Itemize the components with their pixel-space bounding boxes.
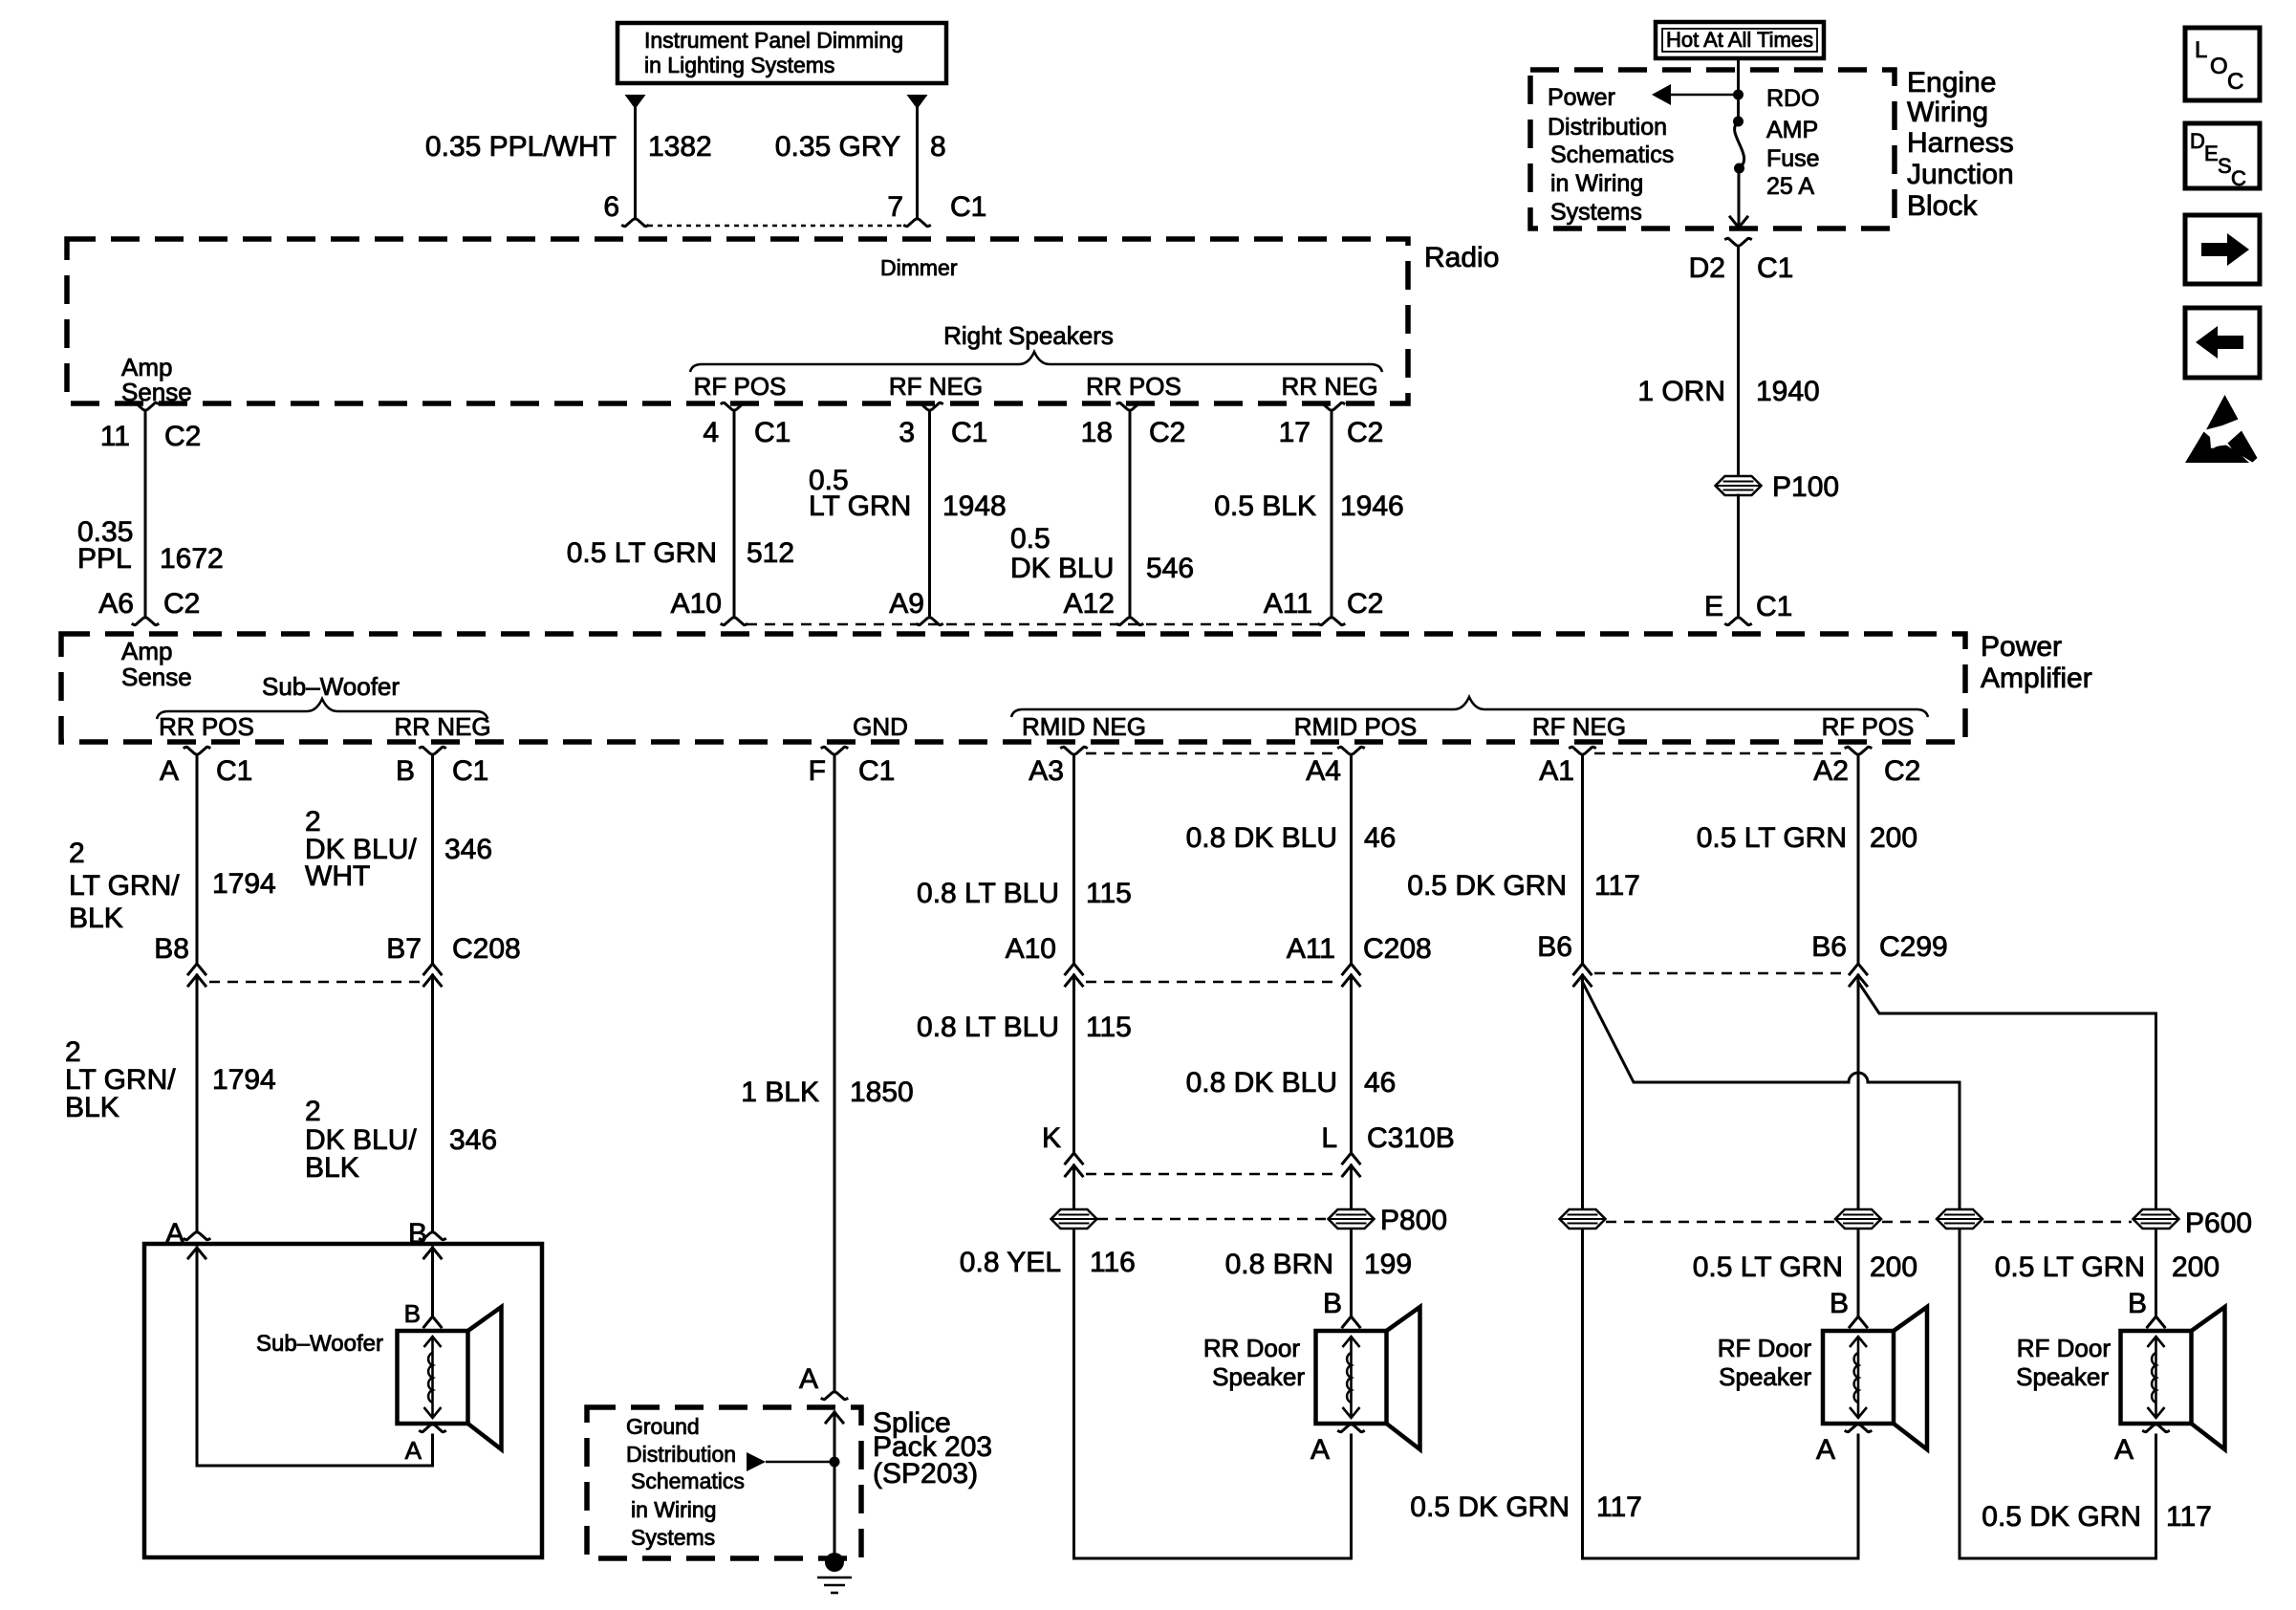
wire 2 DK BLU/BLK 346 <box>431 975 434 1231</box>
svg-text:Harness: Harness <box>1907 127 2014 159</box>
svg-text:C299: C299 <box>1879 931 1948 963</box>
svg-text:Hot At All Times: Hot At All Times <box>1666 28 1813 52</box>
svg-text:O: O <box>2210 54 2228 79</box>
svg-text:2: 2 <box>69 838 85 869</box>
svg-text:1946: 1946 <box>1340 490 1404 522</box>
svg-text:B6: B6 <box>1811 931 1847 963</box>
Radio component dashed box <box>67 239 1408 403</box>
wire 0.5 LT GRN 512 (RF POS) <box>722 402 747 410</box>
svg-text:2: 2 <box>305 1096 321 1127</box>
svg-text:Speaker: Speaker <box>1719 1362 1811 1391</box>
svg-text:BLK: BLK <box>65 1092 119 1123</box>
svg-text:Distribution: Distribution <box>1548 114 1667 141</box>
svg-text:0.8 YEL: 0.8 YEL <box>960 1247 1061 1278</box>
svg-text:RMID POS: RMID POS <box>1294 712 1418 741</box>
connector A at sub-woofer <box>184 1232 209 1240</box>
svg-text:B: B <box>1323 1288 1342 1319</box>
svg-text:C1: C1 <box>1756 591 1792 622</box>
svg-text:(SP203): (SP203) <box>873 1458 978 1490</box>
connector C2/C1 link dashed under radio pins <box>747 623 1319 626</box>
svg-text:Power: Power <box>1548 84 1615 111</box>
svg-text:C1: C1 <box>754 417 791 448</box>
svg-text:Amp: Amp <box>121 637 172 665</box>
svg-text:Block: Block <box>1907 190 1978 222</box>
wire 0.5 BLK 1946 (RR NEG) <box>1319 402 1344 410</box>
svg-text:3: 3 <box>899 417 915 448</box>
svg-text:LT GRN/: LT GRN/ <box>69 870 180 902</box>
connector C1 link dashed <box>648 225 904 227</box>
in-line connector A10 C208 <box>1066 964 1083 974</box>
sub-woofer speaker <box>398 1331 468 1424</box>
RR speaker B terminal <box>1343 1316 1360 1327</box>
svg-text:Speaker: Speaker <box>1212 1362 1305 1391</box>
svg-text:A12: A12 <box>1064 588 1115 620</box>
svg-text:Power: Power <box>1981 631 2062 663</box>
svg-text:117: 117 <box>1596 1491 1642 1523</box>
svg-text:E: E <box>2204 141 2219 165</box>
wire 2 LT GRN/BLK 1794 lower <box>196 975 199 1231</box>
svg-text:Sub–Woofer: Sub–Woofer <box>256 1331 383 1357</box>
svg-text:117: 117 <box>2166 1501 2212 1533</box>
svg-text:18: 18 <box>1081 417 1113 448</box>
svg-text:P800: P800 <box>1380 1205 1447 1236</box>
svg-text:346: 346 <box>444 834 492 865</box>
connector A at splice pack <box>822 1392 847 1400</box>
svg-text:8: 8 <box>930 131 946 163</box>
svg-text:B: B <box>396 755 415 787</box>
svg-text:0.5 LT GRN: 0.5 LT GRN <box>1697 822 1847 854</box>
svg-text:Junction: Junction <box>1907 159 2014 190</box>
svg-text:0.35 GRY: 0.35 GRY <box>775 131 900 163</box>
connector A4 (RMID POS) <box>1339 747 1364 754</box>
svg-text:RR Door: RR Door <box>1203 1334 1300 1362</box>
svg-text:0.8 LT BLU: 0.8 LT BLU <box>917 878 1059 909</box>
svg-text:RF Door: RF Door <box>2017 1334 2112 1362</box>
wire 1 ORN 1940 <box>1737 247 1740 476</box>
svg-text:GND: GND <box>853 712 908 741</box>
svg-text:A: A <box>160 755 179 787</box>
svg-text:C1: C1 <box>950 191 986 223</box>
ground symbol G203 <box>825 1553 844 1572</box>
back arrow icon <box>2185 308 2260 378</box>
svg-text:Distribution: Distribution <box>626 1442 736 1467</box>
svg-text:Ground: Ground <box>626 1414 700 1439</box>
wire 0.8 DK BLU 46 upper <box>1350 755 1353 964</box>
wire 2 DK BLU/WHT 346 <box>431 755 434 964</box>
svg-text:Right Speakers: Right Speakers <box>943 321 1114 350</box>
svg-text:A9: A9 <box>889 588 924 620</box>
svg-text:C2: C2 <box>1884 755 1920 787</box>
svg-text:4: 4 <box>703 417 719 448</box>
svg-text:Amplifier: Amplifier <box>1981 663 2092 694</box>
svg-text:Sense: Sense <box>121 663 192 691</box>
return run to RR speaker A <box>1074 1557 1352 1560</box>
svg-text:AMP: AMP <box>1766 117 1818 143</box>
connector A2 C2 (RF POS) <box>1846 747 1871 754</box>
svg-text:WHT: WHT <box>305 860 370 892</box>
svg-text:C2: C2 <box>164 421 201 452</box>
svg-text:E: E <box>1704 591 1723 622</box>
svg-text:C1: C1 <box>216 755 252 787</box>
wire to speaker B terminal <box>431 1248 434 1316</box>
svg-text:Sub–Woofer: Sub–Woofer <box>262 672 400 701</box>
wire P100 to amplifier E <box>1737 495 1740 617</box>
svg-text:C1: C1 <box>858 755 895 787</box>
Power Amplifier dashed box <box>61 634 1965 742</box>
svg-text:1794: 1794 <box>212 1064 276 1096</box>
svg-text:A11: A11 <box>1287 933 1335 965</box>
svg-text:B6: B6 <box>1537 931 1572 963</box>
svg-text:0.5 BLK: 0.5 BLK <box>1214 490 1316 522</box>
svg-text:C1: C1 <box>951 417 987 448</box>
wire 0.8 DK BLU 46 lower <box>1350 975 1353 1153</box>
svg-text:1672: 1672 <box>160 543 224 575</box>
svg-text:C1: C1 <box>1757 252 1793 284</box>
svg-text:0.5 LT GRN: 0.5 LT GRN <box>1693 1251 1843 1283</box>
svg-text:0.5: 0.5 <box>1010 523 1051 555</box>
svg-text:Wiring: Wiring <box>1907 97 1988 128</box>
svg-text:200: 200 <box>1870 1251 1917 1283</box>
svg-text:RDO: RDO <box>1766 85 1820 112</box>
svg-text:6: 6 <box>603 191 619 223</box>
svg-text:0.5 DK GRN: 0.5 DK GRN <box>1410 1491 1570 1523</box>
svg-text:A3: A3 <box>1029 755 1064 787</box>
branch down through P600 to middle RF speaker B <box>1857 975 1860 1316</box>
wire 1 BLK 1850 <box>834 755 836 1391</box>
branch diagonal to right RF speaker B <box>1858 982 2156 1013</box>
ESD sensitive device symbol <box>2206 395 2239 430</box>
wire from Hot At All Times into block <box>1737 58 1740 91</box>
in-line connector B6 C299 <box>1850 964 1867 974</box>
svg-text:B8: B8 <box>154 933 189 965</box>
svg-text:S: S <box>2218 154 2232 178</box>
wire from fuse to block edge with arrow <box>1738 168 1741 226</box>
svg-text:25 A: 25 A <box>1766 173 1814 200</box>
wire 0.5 DK BLU 546 (RR POS) <box>1117 402 1142 410</box>
svg-text:Dimmer: Dimmer <box>880 255 958 280</box>
svg-text:1382: 1382 <box>648 131 712 163</box>
svg-text:RF NEG: RF NEG <box>889 372 983 401</box>
connector B at sub-woofer <box>421 1232 445 1240</box>
pass-through connector P100 <box>1716 476 1762 495</box>
svg-text:LT GRN: LT GRN <box>809 490 911 522</box>
svg-text:D: D <box>2190 129 2205 153</box>
svg-text:B: B <box>2128 1288 2147 1319</box>
wire to pass-through P800 <box>1072 1165 1075 1558</box>
svg-text:A6: A6 <box>98 588 134 620</box>
svg-text:C1: C1 <box>452 755 488 787</box>
svg-text:DK BLU: DK BLU <box>1010 553 1114 584</box>
P600 pass-through dashed link <box>1606 1221 1834 1224</box>
svg-text:A: A <box>1310 1434 1330 1466</box>
wire 0.5 LT GRN 200 <box>1857 755 1860 964</box>
svg-text:512: 512 <box>747 537 794 569</box>
svg-text:0.5 DK GRN: 0.5 DK GRN <box>1982 1501 2141 1533</box>
connector D2 C1 <box>1726 238 1751 246</box>
Instrument Panel Dimming reference box <box>617 23 946 83</box>
svg-text:B7: B7 <box>386 933 422 965</box>
off-page arrow to dimmer wire 8 <box>907 95 928 109</box>
svg-text:PPL: PPL <box>77 543 132 575</box>
svg-text:0.5 LT GRN: 0.5 LT GRN <box>1995 1251 2145 1283</box>
svg-text:115: 115 <box>1086 878 1132 909</box>
svg-text:Systems: Systems <box>1550 199 1642 226</box>
svg-text:546: 546 <box>1146 553 1194 584</box>
off-page arrow to dimmer wire 1382 <box>625 95 646 109</box>
svg-text:199: 199 <box>1364 1249 1412 1280</box>
svg-text:RR POS: RR POS <box>159 712 254 741</box>
svg-text:1940: 1940 <box>1756 376 1820 407</box>
svg-text:D2: D2 <box>1689 252 1725 284</box>
svg-text:RF POS: RF POS <box>694 372 787 401</box>
svg-text:A: A <box>1816 1434 1835 1466</box>
svg-text:C2: C2 <box>163 588 200 620</box>
svg-text:B: B <box>404 1299 421 1328</box>
svg-text:1948: 1948 <box>942 490 1007 522</box>
in-line connector L C310B <box>1343 1153 1360 1164</box>
svg-text:P100: P100 <box>1772 471 1839 503</box>
wire 0.5 DK GRN 117 <box>1581 755 1584 964</box>
svg-text:Speaker: Speaker <box>2016 1362 2109 1391</box>
svg-text:200: 200 <box>1870 822 1917 854</box>
svg-text:46: 46 <box>1364 1067 1396 1099</box>
svg-text:1 BLK: 1 BLK <box>741 1077 819 1108</box>
svg-text:in Lighting Systems: in Lighting Systems <box>644 53 834 77</box>
DESC icon <box>2185 123 2260 188</box>
svg-text:A10: A10 <box>671 588 722 620</box>
svg-text:Schematics: Schematics <box>1550 141 1674 168</box>
svg-text:Systems: Systems <box>631 1525 715 1550</box>
svg-text:Fuse: Fuse <box>1766 145 1820 172</box>
svg-text:RF POS: RF POS <box>1822 712 1915 741</box>
connector A3 (RMID NEG) <box>1062 747 1087 754</box>
ground distribution branch arrow <box>747 1452 766 1471</box>
svg-text:0.35 PPL/WHT: 0.35 PPL/WHT <box>425 131 617 163</box>
in-line connector B7 C208 <box>424 964 442 974</box>
svg-text:Instrument Panel Dimming: Instrument Panel Dimming <box>644 28 903 53</box>
Engine Wiring Harness Junction Block dashed box <box>1530 70 1895 228</box>
svg-text:C: C <box>2231 166 2246 190</box>
svg-text:A10: A10 <box>1006 933 1056 965</box>
forward arrow icon <box>2185 215 2260 284</box>
svg-text:1850: 1850 <box>850 1077 914 1108</box>
svg-text:Engine: Engine <box>1907 67 1996 98</box>
wire 0.8 LT BLU 115 lower <box>1072 975 1075 1153</box>
svg-text:A: A <box>405 1436 422 1465</box>
svg-text:A1: A1 <box>1539 755 1574 787</box>
wire into sub-woofer to speaker A <box>196 1248 199 1466</box>
Sub-Woofer enclosure box <box>144 1244 542 1557</box>
svg-text:346: 346 <box>449 1124 497 1156</box>
wire to pass-through P800 <box>1350 1165 1353 1316</box>
svg-text:K: K <box>1042 1122 1061 1154</box>
svg-text:0.8 BRN: 0.8 BRN <box>1225 1249 1333 1280</box>
svg-text:Schematics: Schematics <box>631 1469 745 1493</box>
in-line connector A11 C208 <box>1343 964 1360 974</box>
wire 0.35 PPL/WHT 1382 <box>634 107 637 218</box>
svg-text:A: A <box>799 1363 818 1395</box>
P800 pass-through dashed link <box>1097 1218 1329 1221</box>
svg-text:0.8 DK BLU: 0.8 DK BLU <box>1186 822 1337 854</box>
amplifier output brace <box>1011 697 1928 717</box>
pass-through connector P800 <box>1329 1209 1375 1229</box>
svg-text:0.5 LT GRN: 0.5 LT GRN <box>567 537 717 569</box>
svg-text:C310B: C310B <box>1367 1122 1455 1154</box>
Hot At All Times box <box>1656 22 1824 58</box>
branch arrow to power distribution <box>1652 84 1671 105</box>
svg-text:A: A <box>2114 1434 2134 1466</box>
fuse RDO AMP 25 A <box>1737 95 1740 121</box>
Splice Pack 203 dashed box <box>587 1407 861 1558</box>
svg-text:RF NEG: RF NEG <box>1532 712 1626 741</box>
wire 0.8 LT BLU 115 upper <box>1072 755 1075 964</box>
svg-text:A2: A2 <box>1813 755 1849 787</box>
svg-text:46: 46 <box>1364 822 1396 854</box>
svg-text:7: 7 <box>887 191 903 223</box>
wire 0.5 LT GRN 1948 (RF NEG) <box>918 402 942 410</box>
svg-text:B: B <box>1830 1288 1849 1319</box>
connector links below amplifier <box>1086 752 1338 755</box>
svg-text:BLK: BLK <box>69 903 123 934</box>
wire 0.35 GRY 8 <box>916 107 919 218</box>
svg-text:1794: 1794 <box>212 868 276 900</box>
svg-text:200: 200 <box>2172 1251 2220 1283</box>
branch diagonal to right RF speaker A <box>1583 982 1850 1082</box>
svg-text:RR NEG: RR NEG <box>394 712 490 741</box>
svg-text:11: 11 <box>100 421 130 452</box>
svg-text:L: L <box>2195 37 2207 63</box>
wire 2 LT GRN/BLK 1794 upper <box>196 755 199 964</box>
LOC icon <box>2185 28 2260 100</box>
svg-text:RR NEG: RR NEG <box>1281 372 1377 401</box>
svg-text:C208: C208 <box>1363 933 1432 965</box>
svg-text:C2: C2 <box>1347 588 1383 620</box>
svg-text:in Wiring: in Wiring <box>631 1497 716 1522</box>
svg-text:116: 116 <box>1090 1247 1136 1278</box>
svg-text:A11: A11 <box>1264 588 1312 620</box>
in-line connector B8 C208 <box>188 964 206 974</box>
svg-text:C: C <box>2227 69 2243 95</box>
in-line connector B6 (RF NEG) <box>1574 964 1592 974</box>
svg-text:C2: C2 <box>1149 417 1185 448</box>
svg-text:0.8 LT BLU: 0.8 LT BLU <box>917 1012 1059 1043</box>
svg-text:C208: C208 <box>452 933 521 965</box>
svg-text:P600: P600 <box>2185 1207 2252 1239</box>
svg-text:A4: A4 <box>1306 755 1341 787</box>
svg-text:115: 115 <box>1086 1012 1132 1043</box>
branch down to P600 and RF speaker A (middle) <box>1581 975 1584 1558</box>
svg-text:1 ORN: 1 ORN <box>1637 376 1725 407</box>
svg-text:17: 17 <box>1279 417 1310 448</box>
connector A1 (RF NEG) <box>1570 747 1595 754</box>
in-line connector K C310B <box>1066 1153 1083 1164</box>
svg-text:RF Door: RF Door <box>1718 1334 1812 1362</box>
wire 0.35 PPL 1672 (Amp Sense) <box>133 402 158 410</box>
svg-text:BLK: BLK <box>305 1152 359 1184</box>
splice junction <box>834 1412 836 1554</box>
svg-text:0.5 DK GRN: 0.5 DK GRN <box>1407 870 1567 902</box>
svg-text:F: F <box>809 755 826 787</box>
connector A C1 (RR POS) <box>184 747 209 754</box>
connector B C1 (RR NEG) <box>421 747 445 754</box>
svg-text:Radio: Radio <box>1424 242 1499 273</box>
svg-text:C2: C2 <box>1347 417 1383 448</box>
svg-text:RR POS: RR POS <box>1086 372 1181 401</box>
svg-text:117: 117 <box>1594 870 1640 902</box>
pass-through connector (A3 wire) <box>1051 1209 1097 1229</box>
svg-text:RMID NEG: RMID NEG <box>1022 712 1146 741</box>
connector F C1 (GND) <box>822 747 847 754</box>
svg-text:L: L <box>1321 1122 1337 1154</box>
svg-text:in Wiring: in Wiring <box>1550 170 1643 197</box>
svg-text:0.8 DK BLU: 0.8 DK BLU <box>1186 1067 1337 1099</box>
